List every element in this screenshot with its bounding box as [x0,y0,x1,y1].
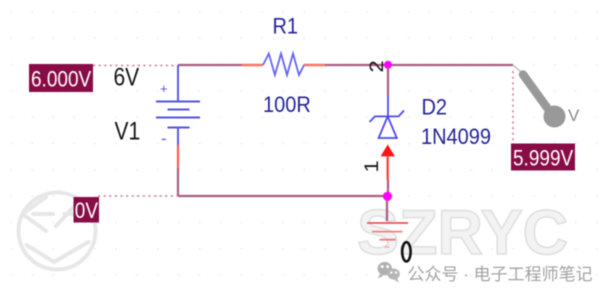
svg-text:V: V [568,106,580,125]
svg-text:0V: 0V [75,199,98,224]
svg-text:SZRYC: SZRYC [357,198,568,268]
svg-text:1N4099: 1N4099 [421,124,491,149]
svg-text:+: + [160,81,168,96]
svg-text:D2: D2 [422,94,448,119]
svg-text:公众号 · 电子工程师笔记: 公众号 · 电子工程师笔记 [408,265,593,284]
svg-text:2: 2 [366,60,387,72]
svg-text:6.000V: 6.000V [31,67,91,92]
svg-text:R1: R1 [273,13,299,38]
svg-text:V1: V1 [115,117,141,145]
svg-text:1: 1 [361,160,382,172]
svg-text:-: - [161,129,167,148]
svg-text:5.999V: 5.999V [513,146,573,171]
svg-text:100R: 100R [263,92,311,117]
svg-text:6V: 6V [114,63,140,91]
